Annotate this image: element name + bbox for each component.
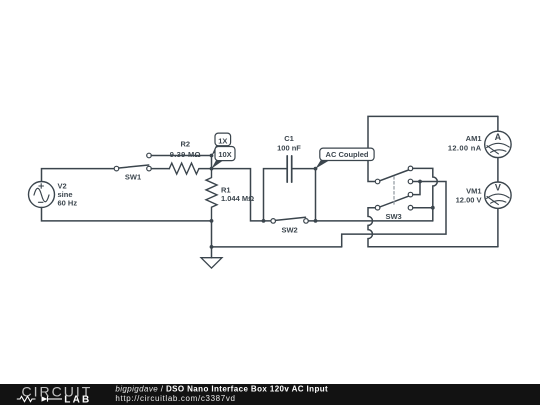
R2 labels [170, 140, 201, 159]
voltmeter VM1 [485, 182, 511, 208]
switch SW2 [271, 217, 308, 223]
node 10X (junction dot) [210, 167, 214, 171]
wire down to ground row [211, 221, 213, 247]
V2 label [58, 181, 78, 207]
node mid throws (junction dot) [418, 180, 422, 184]
svg-text:AM1: AM1 [466, 134, 482, 143]
svg-text:C1: C1 [284, 134, 294, 143]
node 1X (junction dot) [210, 154, 214, 158]
wire SW2 right to node B [308, 220, 315, 222]
wire mid throws to ground row [342, 182, 446, 247]
svg-text:LAB: LAB [64, 394, 91, 405]
wire top rail (pole1 to meters) [368, 116, 498, 181]
svg-text:http://circuitlab.com/c3387vd: http://circuitlab.com/c3387vd [115, 394, 235, 403]
wire SW3 top throw to crossover vertical (hop over mid row) [413, 168, 438, 221]
VM1 labels [456, 186, 482, 204]
C1 labels [277, 134, 301, 153]
node crossover bottom (junction dot) [431, 206, 435, 210]
svg-text:V: V [495, 183, 501, 193]
svg-text:AC Coupled: AC Coupled [326, 150, 369, 159]
wire VM1 down to bottom rail [497, 208, 499, 246]
wire mid throws link [413, 182, 420, 195]
svg-text:12.00 nA: 12.00 nA [448, 144, 482, 153]
svg-text:R1: R1 [221, 185, 231, 194]
svg-text:60 Hz: 60 Hz [58, 199, 78, 208]
svg-text:1X: 1X [218, 136, 227, 145]
svg-text:100 nF: 100 nF [277, 144, 301, 153]
logo squiggle [17, 396, 62, 401]
wire ground row right [212, 246, 342, 248]
wire node 1X down [211, 156, 213, 169]
node R1 bottom (junction dot) [210, 219, 214, 223]
ground symbol [201, 247, 222, 268]
ammeter AM1 [485, 116, 511, 157]
svg-text:10X: 10X [218, 150, 231, 159]
svg-text:SW1: SW1 [125, 172, 141, 181]
callout 1X [212, 133, 231, 155]
callout AC Coupled [316, 148, 375, 169]
wire node 10X right, down to SW2 row [212, 169, 271, 221]
switch SW1 [114, 153, 151, 171]
svg-text:A: A [495, 132, 502, 142]
footer bar [0, 384, 540, 405]
AM1 labels [448, 134, 482, 153]
wire C1 left branch up [264, 169, 288, 221]
resistor R1 [206, 169, 217, 221]
wire SW1 to R2 [151, 168, 169, 170]
svg-text:9.39 MΩ: 9.39 MΩ [170, 150, 201, 159]
wire node B to SW3 crossover [316, 220, 433, 222]
wire AM1 to VM1 [497, 158, 499, 182]
wire 1X bypass [151, 155, 211, 157]
svg-text:1.044 MΩ: 1.044 MΩ [221, 194, 254, 203]
svg-text:SW3: SW3 [385, 212, 401, 221]
svg-text:R2: R2 [181, 140, 191, 149]
node AC coupled (junction dot) [314, 167, 318, 171]
wire SW3 bottom throw [413, 207, 433, 209]
R1 labels [221, 185, 254, 203]
wire SW3 mid-upper throw to node [413, 181, 420, 183]
node ground row (junction dot) [210, 245, 214, 249]
svg-text:SW2: SW2 [281, 225, 297, 234]
wire V2 top to SW1 [42, 169, 115, 182]
svg-text:12.00 V: 12.00 V [456, 196, 482, 205]
voltage source V2 [29, 182, 55, 208]
resistor R2 [169, 163, 199, 174]
capacitor C1 [287, 156, 292, 182]
svg-text:VM1: VM1 [466, 186, 481, 195]
wire R2 to node [199, 168, 212, 170]
node C1 right bottom (junction dot) [314, 219, 318, 223]
callout 10X [212, 147, 236, 169]
wire C1 right branch down [292, 169, 316, 221]
node C1 left (junction dot) [262, 219, 266, 223]
svg-text:bigpigdave / DSO Nano Interfac: bigpigdave / DSO Nano Interface Box 120v… [115, 385, 328, 394]
wire pole2 with hops down to bottom rail [368, 208, 498, 247]
wire V2 bottom to ground node [42, 208, 212, 221]
switch SW3 (DPDT) [375, 166, 413, 210]
